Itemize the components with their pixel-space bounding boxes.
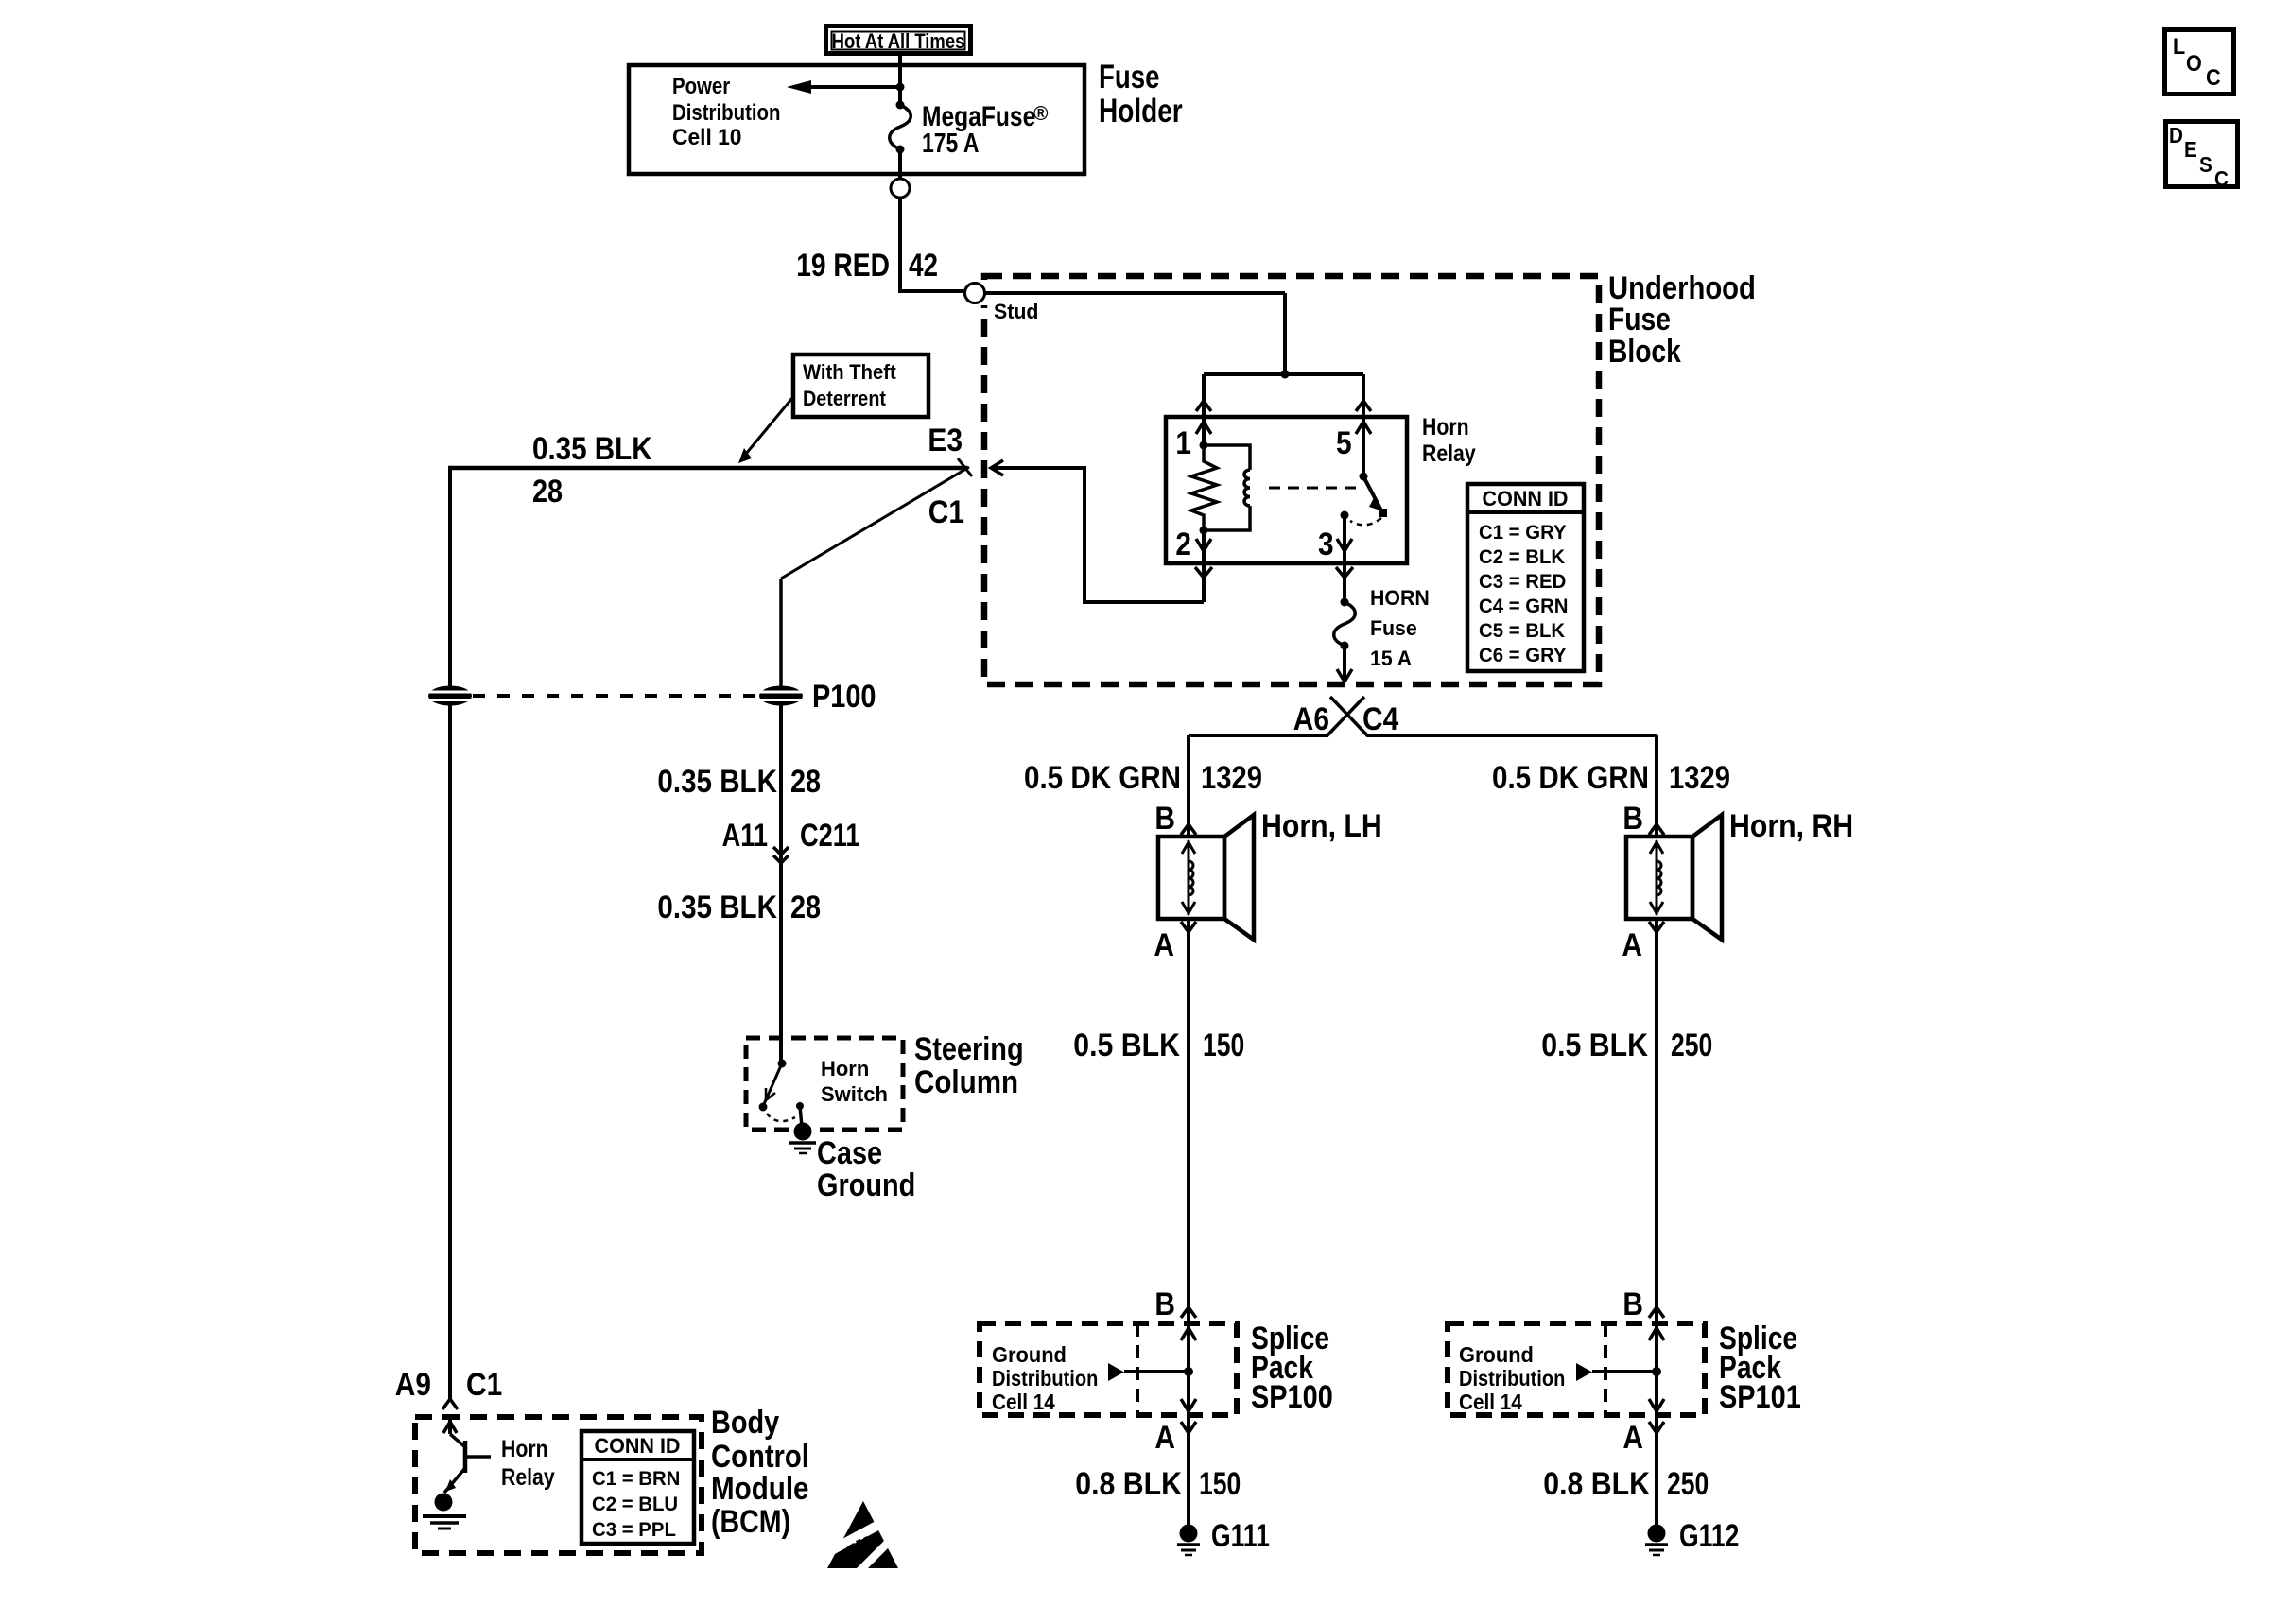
svg-text:Horn: Horn bbox=[501, 1436, 548, 1462]
svg-text:250: 250 bbox=[1671, 1028, 1712, 1063]
svg-text:C1 = GRY: C1 = GRY bbox=[1479, 522, 1567, 544]
svg-text:Ground: Ground bbox=[1459, 1342, 1534, 1367]
svg-text:Power: Power bbox=[672, 74, 730, 99]
svg-text:Distribution: Distribution bbox=[1459, 1366, 1565, 1391]
svg-text:0.5 DK GRN: 0.5 DK GRN bbox=[1492, 760, 1649, 796]
svg-text:Cell 10: Cell 10 bbox=[672, 125, 742, 150]
svg-text:B: B bbox=[1154, 801, 1175, 837]
svg-text:175 A: 175 A bbox=[922, 129, 979, 159]
svg-text:HORN: HORN bbox=[1370, 586, 1430, 610]
svg-text:B: B bbox=[1622, 801, 1643, 837]
svg-text:C5 = BLK: C5 = BLK bbox=[1479, 620, 1565, 642]
svg-text:®: ® bbox=[1033, 103, 1049, 125]
svg-text:A: A bbox=[1622, 927, 1642, 963]
svg-text:C1: C1 bbox=[466, 1367, 502, 1403]
svg-text:150: 150 bbox=[1199, 1466, 1241, 1502]
svg-text:Ground: Ground bbox=[817, 1167, 915, 1203]
svg-text:Fuse: Fuse bbox=[1099, 59, 1160, 95]
svg-text:A: A bbox=[1154, 1420, 1175, 1456]
svg-text:150: 150 bbox=[1203, 1028, 1244, 1063]
svg-text:O: O bbox=[2186, 51, 2202, 77]
svg-text:A: A bbox=[1622, 1420, 1643, 1456]
svg-text:D: D bbox=[2169, 123, 2183, 147]
svg-text:A11: A11 bbox=[722, 818, 768, 854]
svg-text:Holder: Holder bbox=[1099, 93, 1183, 130]
svg-text:C1: C1 bbox=[928, 494, 964, 530]
svg-text:0.35 BLK: 0.35 BLK bbox=[532, 431, 652, 467]
svg-text:E: E bbox=[2184, 137, 2197, 162]
svg-text:Distribution: Distribution bbox=[672, 100, 781, 126]
svg-text:A9: A9 bbox=[395, 1367, 431, 1403]
svg-text:28: 28 bbox=[790, 764, 821, 800]
svg-text:C: C bbox=[2206, 65, 2221, 91]
svg-text:E3: E3 bbox=[928, 423, 963, 458]
svg-text:Relay: Relay bbox=[1422, 441, 1476, 467]
svg-text:SP100: SP100 bbox=[1251, 1379, 1333, 1415]
svg-text:Relay: Relay bbox=[501, 1464, 555, 1491]
svg-text:Distribution: Distribution bbox=[992, 1366, 1098, 1391]
svg-text:Hot At All Times: Hot At All Times bbox=[832, 29, 965, 53]
svg-text:C6 = GRY: C6 = GRY bbox=[1479, 645, 1567, 666]
svg-text:Fuse: Fuse bbox=[1608, 302, 1671, 337]
svg-text:Deterrent: Deterrent bbox=[803, 387, 887, 410]
svg-text:CONN ID: CONN ID bbox=[595, 1434, 681, 1458]
svg-text:Block: Block bbox=[1608, 334, 1681, 370]
svg-text:Stud: Stud bbox=[994, 300, 1038, 323]
svg-text:C4 = GRN: C4 = GRN bbox=[1479, 596, 1569, 617]
svg-text:Module: Module bbox=[711, 1471, 809, 1507]
svg-text:5: 5 bbox=[1336, 425, 1352, 461]
svg-text:Steering: Steering bbox=[914, 1031, 1024, 1067]
svg-text:0.35 BLK: 0.35 BLK bbox=[657, 764, 777, 800]
svg-text:SP101: SP101 bbox=[1719, 1379, 1801, 1415]
svg-text:0.8 BLK: 0.8 BLK bbox=[1543, 1466, 1650, 1502]
svg-text:Cell 14: Cell 14 bbox=[1459, 1390, 1522, 1414]
svg-text:Fuse: Fuse bbox=[1370, 616, 1417, 640]
svg-text:Switch: Switch bbox=[821, 1082, 888, 1106]
svg-text:Horn, LH: Horn, LH bbox=[1261, 808, 1382, 844]
svg-text:L: L bbox=[2173, 34, 2185, 60]
svg-text:Cell 14: Cell 14 bbox=[992, 1390, 1055, 1414]
svg-text:With Theft: With Theft bbox=[803, 360, 896, 384]
svg-text:C3 = RED: C3 = RED bbox=[1479, 571, 1566, 593]
svg-text:Horn: Horn bbox=[821, 1057, 869, 1080]
svg-text:Horn, RH: Horn, RH bbox=[1729, 808, 1853, 844]
svg-text:1329: 1329 bbox=[1669, 760, 1730, 796]
svg-text:19 RED: 19 RED bbox=[796, 248, 890, 284]
svg-text:15 A: 15 A bbox=[1370, 647, 1412, 670]
svg-text:28: 28 bbox=[532, 474, 563, 510]
svg-text:Ground: Ground bbox=[992, 1342, 1067, 1367]
svg-text:0.5 DK GRN: 0.5 DK GRN bbox=[1024, 760, 1181, 796]
svg-text:0.5 BLK: 0.5 BLK bbox=[1073, 1028, 1180, 1063]
svg-text:C4: C4 bbox=[1362, 701, 1398, 737]
svg-text:C3 = PPL: C3 = PPL bbox=[592, 1519, 676, 1541]
svg-text:42: 42 bbox=[909, 248, 938, 284]
svg-text:C1 = BRN: C1 = BRN bbox=[592, 1468, 680, 1490]
svg-text:(BCM): (BCM) bbox=[711, 1504, 790, 1540]
svg-text:B: B bbox=[1622, 1287, 1643, 1322]
svg-text:0.5 BLK: 0.5 BLK bbox=[1541, 1028, 1648, 1063]
svg-text:A6: A6 bbox=[1293, 701, 1329, 737]
svg-text:Horn: Horn bbox=[1422, 414, 1469, 441]
svg-text:Body: Body bbox=[711, 1405, 779, 1441]
svg-text:C211: C211 bbox=[800, 818, 860, 854]
svg-text:0.35 BLK: 0.35 BLK bbox=[657, 890, 777, 925]
svg-text:G112: G112 bbox=[1679, 1518, 1739, 1554]
svg-text:3: 3 bbox=[1318, 527, 1334, 562]
svg-text:S: S bbox=[2199, 152, 2212, 177]
svg-text:A: A bbox=[1154, 927, 1174, 963]
svg-text:2: 2 bbox=[1175, 527, 1191, 562]
svg-text:28: 28 bbox=[790, 890, 821, 925]
svg-text:P100: P100 bbox=[812, 679, 876, 715]
svg-text:C2 = BLU: C2 = BLU bbox=[592, 1494, 678, 1515]
svg-text:250: 250 bbox=[1667, 1466, 1709, 1502]
svg-text:G111: G111 bbox=[1211, 1518, 1270, 1554]
svg-text:CONN ID: CONN ID bbox=[1483, 487, 1569, 510]
svg-text:C: C bbox=[2214, 166, 2229, 191]
svg-text:Control: Control bbox=[711, 1439, 809, 1475]
svg-text:Column: Column bbox=[914, 1064, 1018, 1100]
svg-text:1: 1 bbox=[1175, 425, 1191, 461]
svg-text:0.8 BLK: 0.8 BLK bbox=[1075, 1466, 1182, 1502]
svg-text:C2 = BLK: C2 = BLK bbox=[1479, 546, 1565, 568]
svg-text:1329: 1329 bbox=[1201, 760, 1262, 796]
svg-text:B: B bbox=[1154, 1287, 1175, 1322]
svg-text:Case: Case bbox=[817, 1135, 882, 1171]
